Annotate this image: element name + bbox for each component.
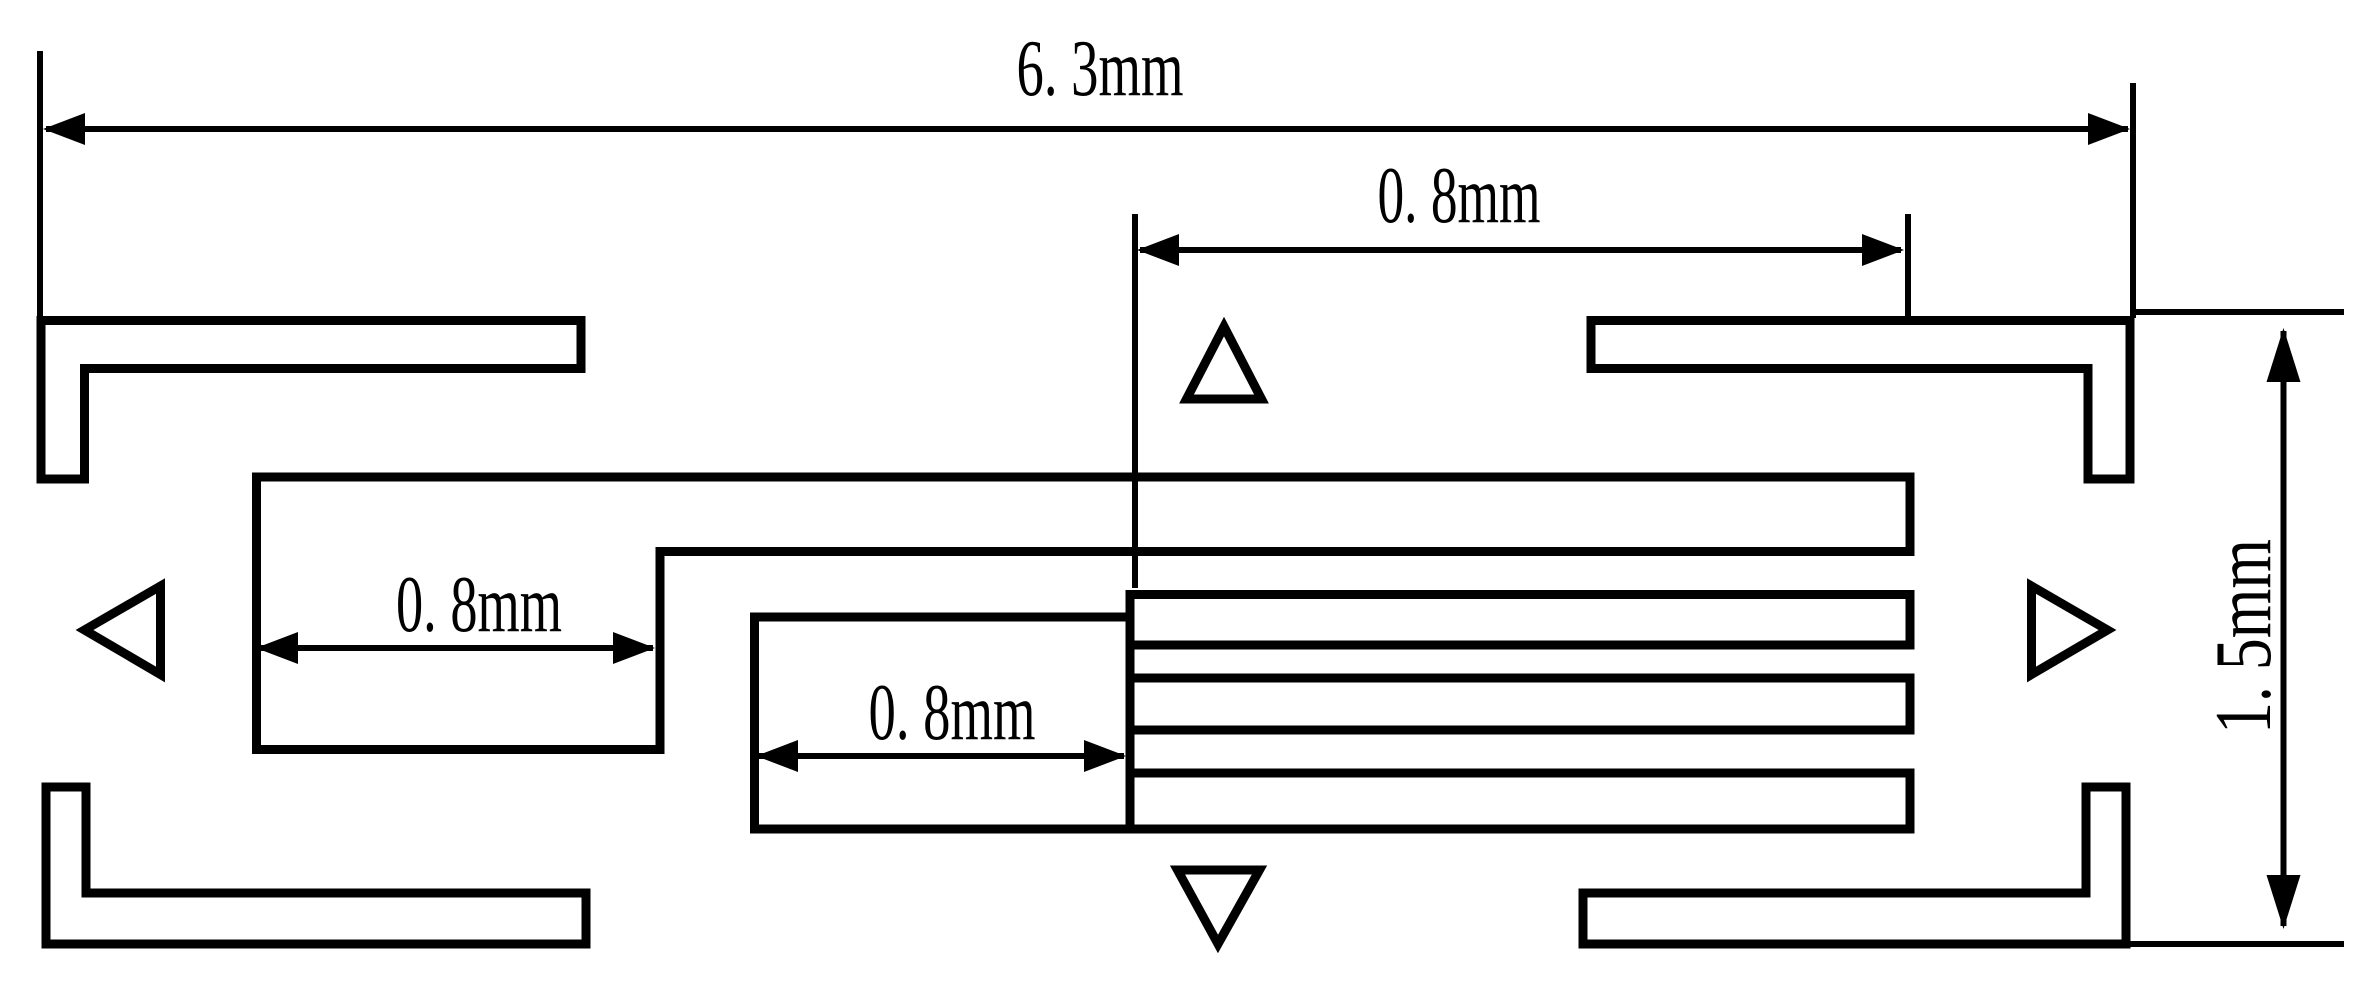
finger 4 [1130,773,1910,829]
dimension 6.3mm overall width [40,51,2133,318]
alignment bracket top-right [1591,321,2130,480]
svg-text:1. 5mm: 1. 5mm [2200,539,2288,734]
finger 2 [1130,595,1910,646]
svg-text:0. 8mm: 0. 8mm [1378,152,1541,240]
dimension 0.8mm left (pad width) [258,645,653,651]
dimension 1.5mm right (overall height) [2130,312,2344,944]
registration triangle right (middle right) [2032,586,2108,675]
svg-text:0. 8mm: 0. 8mm [396,561,562,649]
svg-text:0. 8mm: 0. 8mm [869,669,1036,757]
electrode middle pad [755,617,1131,829]
alignment bracket top-left [41,321,581,480]
electrode left pad with top finger [257,477,1911,750]
svg-text:6. 3mm: 6. 3mm [1017,25,1184,113]
registration triangle left (middle left) [85,586,161,675]
registration triangle up (top center) [1187,327,1262,400]
dimension 0.8mm top (finger length) [1135,214,1908,588]
alignment bracket bottom-left [46,787,586,944]
finger 3 [1130,678,1910,730]
dimension 0.8mm middle (pad width) [758,753,1124,759]
alignment bracket bottom-right [1583,787,2126,944]
registration triangle down (bottom center) [1178,870,1260,944]
